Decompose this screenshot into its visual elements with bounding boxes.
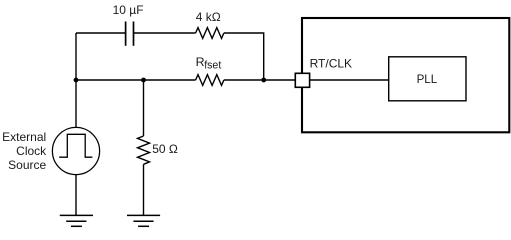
wire: capacitor to 4 kΩ resistor — [134, 32, 196, 34]
wire: top net from left corner to capacitor — [76, 32, 126, 34]
block PLL — [389, 57, 466, 101]
resistor Rfset (zigzag) — [196, 75, 224, 86]
external clock source symbol (circle) — [52, 127, 99, 174]
wire: Rfset to RT/CLK pin — [224, 79, 295, 81]
svg-text:10 µF: 10 µF — [113, 3, 144, 17]
pulse waveform inside clock source — [59, 134, 92, 157]
label: External Clock Source — [2, 130, 47, 172]
label: 4 kΩ — [196, 10, 221, 24]
wire: clock source to ground — [75, 175, 77, 216]
label: 10 µF — [113, 3, 144, 17]
wire: 50 Ω resistor to ground — [143, 164, 145, 215]
wire: node C down to 50 Ω resistor — [143, 80, 145, 136]
pin RT/CLK (terminal square on IC edge) — [295, 73, 309, 87]
wire: left vertical from top corner through node A to clock source — [75, 33, 77, 128]
label: RT/CLK — [310, 56, 352, 70]
node C (junction dot at 50 Ω branch / middle net) — [141, 78, 146, 83]
wire: middle net from node A to Rfset — [76, 79, 196, 81]
svg-text:RT/CLK: RT/CLK — [310, 56, 352, 70]
label: Rfset — [196, 55, 222, 72]
svg-text:50 Ω: 50 Ω — [152, 142, 178, 156]
wire: 4 kΩ to top-right corner, down to node B — [224, 33, 264, 80]
node B (junction dot at 4 kΩ branch / middle net) — [261, 78, 266, 83]
resistor 50 Ω (vertical zigzag) — [138, 136, 150, 164]
ground (under clock source) — [60, 215, 93, 226]
label: 50 Ω — [152, 142, 178, 156]
capacitor C 10 µF (plates) — [126, 22, 134, 46]
IC outline box (device containing PLL) — [302, 18, 509, 132]
node A (junction dot at left vertical / middle net) — [74, 78, 79, 83]
label: PLL — [417, 73, 438, 86]
ground (under 50 Ω) — [127, 215, 160, 226]
svg-text:fset: fset — [204, 60, 221, 72]
wire: RT/CLK pin to PLL block — [310, 79, 389, 81]
svg-text:Clock: Clock — [16, 144, 47, 158]
svg-text:External: External — [2, 130, 46, 144]
svg-text:4 kΩ: 4 kΩ — [196, 10, 221, 24]
resistor 4 kΩ (zigzag) — [196, 28, 224, 39]
svg-text:Source: Source — [8, 158, 46, 172]
svg-text:PLL: PLL — [417, 73, 438, 86]
